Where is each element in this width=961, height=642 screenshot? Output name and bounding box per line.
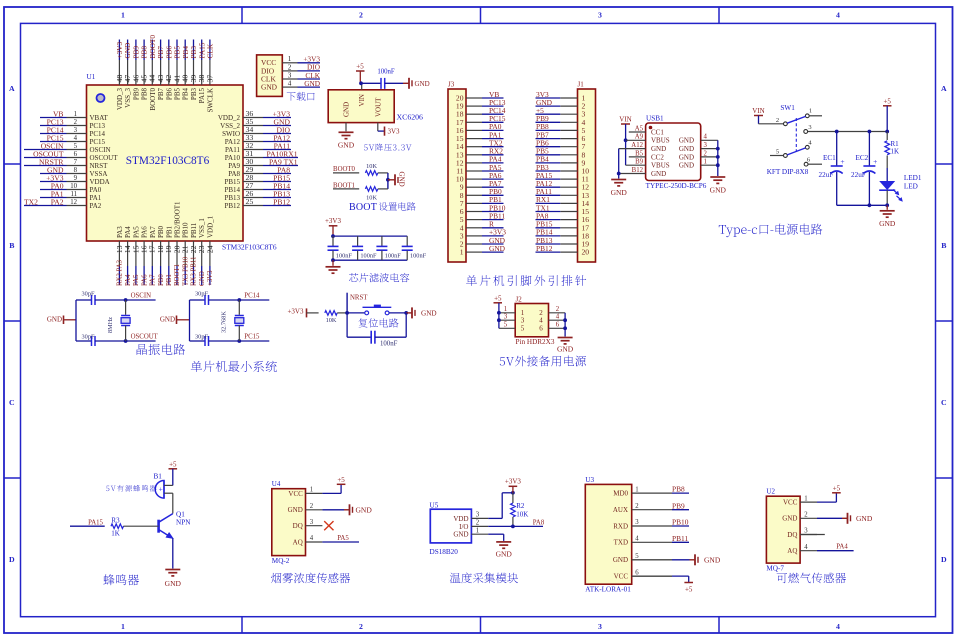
svg-text:RX2 PA3: RX2 PA3	[117, 259, 124, 286]
svg-text:PB14: PB14	[224, 186, 240, 194]
svg-text:OSCOUT: OSCOUT	[131, 334, 159, 341]
svg-text:PB8: PB8	[141, 88, 149, 101]
svg-text:10K: 10K	[366, 195, 377, 202]
svg-text:PC14: PC14	[90, 130, 106, 138]
svg-text:100nF: 100nF	[377, 69, 395, 76]
svg-text:MQ-7: MQ-7	[766, 565, 784, 573]
svg-text:100nF: 100nF	[360, 252, 377, 259]
svg-text:B9: B9	[635, 159, 644, 166]
svg-text:PA2: PA2	[51, 197, 64, 206]
svg-text:6: 6	[635, 569, 639, 576]
svg-text:BOOT0: BOOT0	[333, 166, 356, 173]
svg-text:MD0: MD0	[613, 490, 628, 498]
svg-text:PA0: PA0	[90, 186, 102, 194]
svg-text:PB13: PB13	[224, 194, 240, 202]
svg-text:5: 5	[635, 553, 639, 560]
svg-text:6: 6	[556, 322, 560, 329]
svg-text:NRST: NRST	[350, 295, 368, 302]
svg-text:A9: A9	[635, 134, 644, 141]
svg-text:U1: U1	[87, 73, 96, 81]
svg-text:3: 3	[310, 519, 314, 526]
svg-text:BOOT1: BOOT1	[174, 264, 181, 286]
svg-text:4: 4	[539, 317, 543, 325]
svg-text:VCC: VCC	[288, 490, 303, 498]
svg-text:STM32F103C8T6: STM32F103C8T6	[222, 243, 277, 252]
svg-text:PB9: PB9	[672, 501, 685, 510]
svg-text:USB1: USB1	[646, 115, 664, 123]
svg-text:GND: GND	[496, 550, 513, 559]
svg-text:TYPEC-250D-BCP6: TYPEC-250D-BCP6	[646, 182, 707, 190]
svg-text:STM32F103C8T6: STM32F103C8T6	[126, 155, 210, 167]
svg-text:PA4: PA4	[836, 544, 848, 551]
svg-text:GND: GND	[338, 141, 355, 150]
svg-text:1: 1	[704, 159, 707, 166]
svg-text:8: 8	[74, 167, 78, 174]
svg-text:VIN: VIN	[619, 116, 631, 124]
svg-text:DQ: DQ	[787, 531, 797, 539]
svg-text:PB12: PB12	[224, 202, 240, 210]
svg-text:PB6: PB6	[165, 88, 173, 101]
svg-text:+5: +5	[494, 294, 502, 302]
svg-text:PB10: PB10	[672, 518, 689, 527]
svg-text:+: +	[840, 157, 844, 166]
svg-text:LED: LED	[904, 183, 918, 191]
svg-text:100nF: 100nF	[380, 341, 398, 348]
svg-text:1: 1	[804, 495, 807, 502]
svg-text:EC2: EC2	[856, 154, 869, 162]
svg-text:GND: GND	[651, 170, 666, 178]
svg-text:+5: +5	[883, 97, 891, 105]
svg-text:4: 4	[836, 11, 840, 20]
svg-text:2: 2	[804, 512, 808, 519]
svg-text:A: A	[9, 84, 15, 93]
svg-text:5: 5	[504, 322, 508, 329]
svg-text:GND: GND	[613, 556, 628, 564]
svg-text:25: 25	[246, 197, 254, 206]
svg-text:VBUS: VBUS	[651, 162, 670, 170]
svg-text:I/O: I/O	[459, 523, 468, 531]
svg-text:VSS_1: VSS_1	[198, 218, 206, 238]
svg-text:3: 3	[504, 314, 508, 321]
svg-text:CC2: CC2	[651, 153, 664, 161]
svg-text:KFT DIP-8X8: KFT DIP-8X8	[767, 168, 809, 176]
svg-text:5: 5	[776, 148, 779, 155]
svg-text:C: C	[9, 398, 15, 407]
svg-text:VIN: VIN	[752, 107, 764, 115]
svg-text:PA5: PA5	[133, 274, 140, 286]
svg-text:4: 4	[556, 314, 560, 321]
svg-text:7: 7	[74, 159, 78, 166]
svg-text:3V3: 3V3	[388, 128, 401, 136]
svg-text:30pF: 30pF	[82, 333, 95, 340]
svg-text:PA9: PA9	[228, 162, 240, 170]
svg-text:SWCLK: SWCLK	[206, 88, 214, 113]
svg-text:BOOT: BOOT	[349, 202, 377, 213]
svg-text:RXD: RXD	[613, 522, 628, 530]
svg-text:GND: GND	[879, 219, 896, 228]
svg-text:VBAT: VBAT	[90, 114, 109, 122]
svg-text:8MHz: 8MHz	[107, 317, 114, 333]
svg-text:PA12: PA12	[225, 138, 241, 146]
svg-text:PB11: PB11	[672, 534, 688, 543]
svg-text:A12: A12	[631, 142, 643, 149]
svg-text:PB0: PB0	[158, 274, 165, 286]
svg-text:PA10: PA10	[225, 154, 241, 162]
svg-text:VBUS: VBUS	[651, 137, 670, 145]
svg-text:PB3: PB3	[190, 88, 198, 101]
svg-text:1: 1	[121, 622, 125, 631]
svg-text:PA5: PA5	[132, 226, 140, 238]
svg-text:PB7: PB7	[157, 88, 165, 101]
svg-text:3: 3	[635, 519, 639, 526]
svg-text:BOOT0: BOOT0	[149, 88, 157, 111]
svg-text:GND: GND	[421, 309, 437, 317]
svg-text:PA6: PA6	[141, 274, 148, 286]
svg-text:+5: +5	[356, 63, 364, 71]
svg-text:ATK-LORA-01: ATK-LORA-01	[585, 586, 631, 594]
svg-text:B5: B5	[635, 150, 644, 157]
svg-text:VDD_2: VDD_2	[218, 114, 241, 122]
svg-text:DQ: DQ	[293, 522, 303, 530]
svg-text:PB12: PB12	[536, 244, 553, 253]
svg-text:1: 1	[504, 306, 507, 313]
svg-text:J1: J1	[578, 81, 585, 89]
svg-text:+3V3: +3V3	[207, 270, 214, 286]
svg-text:1: 1	[288, 55, 292, 63]
svg-text:SWIO: SWIO	[222, 130, 240, 138]
svg-text:GND: GND	[261, 83, 278, 92]
svg-text:RX3 PB11: RX3 PB11	[191, 257, 198, 286]
svg-text:D: D	[941, 555, 947, 564]
svg-text:+: +	[159, 484, 163, 493]
svg-text:DS18B20: DS18B20	[430, 548, 459, 556]
svg-text:Q1: Q1	[176, 511, 185, 519]
svg-text:PB4: PB4	[182, 88, 190, 101]
svg-text:6: 6	[539, 325, 543, 333]
svg-text:4: 4	[635, 536, 639, 543]
svg-text:B12: B12	[632, 167, 644, 174]
svg-text:EC1: EC1	[823, 154, 836, 162]
svg-text:+: +	[873, 157, 877, 166]
svg-text:PA15: PA15	[198, 88, 206, 104]
svg-text:A: A	[941, 84, 947, 93]
svg-text:GND: GND	[288, 506, 303, 514]
svg-text:1: 1	[460, 248, 464, 257]
svg-text:OSCIN: OSCIN	[131, 293, 151, 300]
svg-text:30pF: 30pF	[82, 290, 95, 297]
svg-text:22uF: 22uF	[851, 171, 866, 179]
svg-text:PA2: PA2	[90, 202, 102, 210]
svg-text:VDDA: VDDA	[90, 178, 110, 186]
svg-text:OSCOUT: OSCOUT	[90, 154, 119, 162]
svg-text:2: 2	[776, 117, 779, 124]
svg-text:C: C	[941, 398, 947, 407]
svg-text:PC13: PC13	[90, 122, 106, 130]
svg-text:1: 1	[809, 108, 812, 115]
svg-text:2: 2	[310, 503, 314, 510]
svg-text:3: 3	[598, 622, 602, 631]
svg-text:PC15: PC15	[244, 334, 260, 341]
svg-text:4: 4	[836, 622, 840, 631]
svg-text:D: D	[9, 555, 15, 564]
svg-text:100nF: 100nF	[410, 252, 427, 259]
svg-text:3: 3	[288, 71, 292, 79]
svg-text:10K: 10K	[516, 510, 528, 518]
svg-text:3: 3	[476, 512, 480, 519]
svg-text:PA1: PA1	[90, 194, 102, 202]
svg-text:VCC: VCC	[614, 573, 629, 581]
svg-text:22uF: 22uF	[819, 171, 834, 179]
svg-text:PB10: PB10	[182, 222, 190, 238]
svg-text:3: 3	[704, 142, 708, 149]
svg-text:PB9: PB9	[132, 88, 140, 101]
svg-text:1: 1	[74, 111, 77, 118]
svg-text:GND: GND	[611, 188, 628, 197]
svg-text:XC6206: XC6206	[397, 113, 424, 122]
svg-text:TX3 PB10: TX3 PB10	[182, 256, 189, 286]
svg-text:2: 2	[359, 11, 363, 20]
svg-text:GND: GND	[679, 145, 694, 153]
svg-text:OSCIN: OSCIN	[90, 146, 111, 154]
svg-text:CC1: CC1	[651, 128, 664, 136]
svg-text:PA11: PA11	[225, 146, 241, 154]
svg-text:1: 1	[310, 487, 313, 494]
svg-text:2: 2	[556, 306, 560, 313]
svg-text:GND: GND	[47, 315, 62, 323]
svg-text:10: 10	[70, 183, 77, 190]
svg-text:32.768K: 32.768K	[221, 311, 228, 333]
svg-text:100nF: 100nF	[385, 252, 402, 259]
svg-text:A5: A5	[635, 125, 644, 132]
svg-text:37: 37	[205, 75, 214, 83]
svg-text:PB5: PB5	[174, 88, 182, 101]
svg-text:NPN: NPN	[176, 519, 191, 527]
svg-text:VDD_1: VDD_1	[206, 215, 214, 238]
svg-text:4: 4	[310, 535, 314, 542]
svg-text:1: 1	[635, 486, 638, 493]
svg-text:GND: GND	[489, 244, 506, 253]
svg-text:GND: GND	[782, 515, 797, 523]
svg-text:10K: 10K	[326, 317, 337, 324]
svg-text:U2: U2	[766, 488, 775, 496]
svg-text:2: 2	[288, 63, 292, 71]
svg-text:GND: GND	[304, 79, 320, 88]
svg-text:2: 2	[635, 503, 639, 510]
svg-text:PB15: PB15	[224, 178, 240, 186]
svg-text:2: 2	[476, 520, 480, 527]
svg-text:U4: U4	[272, 480, 281, 488]
svg-text:VOUT: VOUT	[374, 97, 382, 117]
svg-text:J3: J3	[448, 81, 455, 89]
svg-text:4: 4	[704, 134, 708, 141]
svg-text:AQ: AQ	[787, 547, 797, 555]
svg-text:30pF: 30pF	[195, 290, 208, 297]
svg-text:B1: B1	[154, 472, 163, 480]
svg-text:GND: GND	[704, 555, 721, 564]
svg-text:VSS_3: VSS_3	[124, 88, 132, 108]
svg-text:TXD: TXD	[614, 539, 628, 547]
svg-text:1: 1	[476, 527, 479, 534]
svg-text:U3: U3	[585, 476, 594, 484]
svg-text:4: 4	[288, 80, 292, 88]
svg-text:30pF: 30pF	[195, 333, 208, 340]
svg-text:3: 3	[74, 127, 78, 134]
svg-text:PB1: PB1	[166, 274, 173, 286]
svg-text:VDD: VDD	[453, 515, 468, 523]
svg-text:GND: GND	[199, 271, 206, 286]
svg-text:PB0: PB0	[157, 225, 165, 238]
svg-text:GND: GND	[651, 145, 666, 153]
svg-text:SW1: SW1	[780, 104, 795, 112]
svg-text:PB1: PB1	[165, 225, 173, 238]
svg-text:20: 20	[582, 248, 590, 257]
svg-text:1K: 1K	[111, 530, 120, 538]
svg-text:GND: GND	[557, 345, 574, 354]
svg-text:+3V3: +3V3	[325, 217, 342, 225]
svg-text:5: 5	[74, 143, 78, 150]
svg-text:GND: GND	[710, 186, 727, 195]
svg-text:+5: +5	[169, 461, 177, 469]
svg-text:GND: GND	[679, 162, 694, 170]
svg-text:VSS_2: VSS_2	[220, 122, 240, 130]
svg-text:PC15: PC15	[90, 138, 106, 146]
svg-text:6: 6	[74, 151, 78, 158]
svg-text:MQ-2: MQ-2	[272, 557, 290, 565]
svg-text:1K: 1K	[891, 148, 900, 156]
svg-text:GND: GND	[398, 172, 406, 187]
svg-text:PB12: PB12	[273, 197, 290, 206]
svg-text:PA4: PA4	[124, 226, 132, 238]
svg-text:B: B	[9, 241, 14, 250]
svg-text:VDD_3: VDD_3	[116, 88, 124, 111]
svg-text:J2: J2	[516, 296, 523, 304]
svg-text:NRST: NRST	[90, 162, 109, 170]
svg-text:R3: R3	[111, 517, 120, 525]
svg-text:GND: GND	[160, 315, 175, 323]
svg-text:GND: GND	[453, 531, 468, 539]
svg-text:R2: R2	[516, 502, 525, 510]
svg-text:PB8: PB8	[672, 485, 685, 494]
svg-text:24: 24	[205, 245, 214, 253]
svg-text:B: B	[941, 241, 946, 250]
svg-text:+3V3: +3V3	[287, 307, 304, 315]
svg-text:GND: GND	[679, 153, 694, 161]
svg-text:+5: +5	[685, 586, 693, 594]
svg-text:CLK: CLK	[206, 43, 215, 58]
svg-text:PA7: PA7	[149, 226, 157, 238]
svg-text:9: 9	[74, 175, 78, 182]
svg-text:PB11: PB11	[190, 222, 198, 238]
svg-text:VSSA: VSSA	[90, 170, 108, 178]
svg-text:5: 5	[521, 325, 525, 333]
svg-text:+3V3: +3V3	[505, 477, 522, 485]
svg-text:PA5: PA5	[337, 535, 349, 542]
svg-text:PC14: PC14	[244, 293, 260, 300]
svg-text:U5: U5	[430, 502, 439, 510]
svg-text:Pin HDR2X3: Pin HDR2X3	[516, 338, 555, 346]
svg-text:+5: +5	[833, 484, 841, 492]
svg-text:PA4: PA4	[125, 274, 132, 286]
svg-text:GND: GND	[679, 137, 694, 145]
svg-text:PA8: PA8	[533, 520, 545, 527]
svg-text:4: 4	[804, 544, 808, 551]
svg-text:GND: GND	[165, 579, 182, 588]
svg-text:AQ: AQ	[293, 538, 303, 546]
svg-text:3: 3	[598, 11, 602, 20]
svg-text:LED1: LED1	[904, 174, 922, 182]
svg-text:PA3: PA3	[116, 226, 124, 238]
svg-text:GND: GND	[356, 505, 373, 514]
svg-text:GND: GND	[343, 102, 351, 117]
svg-text:10K: 10K	[366, 163, 377, 170]
svg-text:PA7: PA7	[150, 274, 157, 286]
svg-text:1: 1	[121, 11, 125, 20]
svg-text:12: 12	[70, 199, 77, 206]
svg-text:2: 2	[359, 622, 363, 631]
svg-text:PA6: PA6	[141, 226, 149, 238]
svg-text:+5: +5	[337, 476, 345, 484]
svg-text:PA15: PA15	[88, 519, 103, 526]
svg-text:GND: GND	[856, 514, 873, 523]
svg-text:11: 11	[70, 191, 77, 198]
svg-text:3: 3	[521, 317, 525, 325]
svg-text:GND: GND	[415, 80, 430, 88]
svg-text:VCC: VCC	[783, 499, 798, 507]
svg-text:PB2/BOOT1: PB2/BOOT1	[174, 201, 182, 238]
svg-text:2: 2	[74, 119, 78, 126]
svg-text:TX2: TX2	[24, 197, 38, 206]
svg-text:AUX: AUX	[613, 506, 628, 514]
svg-text:2: 2	[704, 150, 708, 157]
svg-text:PA8: PA8	[228, 170, 240, 178]
svg-text:100nF: 100nF	[336, 252, 353, 259]
svg-text:VIN: VIN	[358, 94, 366, 106]
svg-text:3: 3	[804, 528, 808, 535]
svg-text:4: 4	[74, 135, 78, 142]
svg-text:3: 3	[808, 124, 811, 131]
